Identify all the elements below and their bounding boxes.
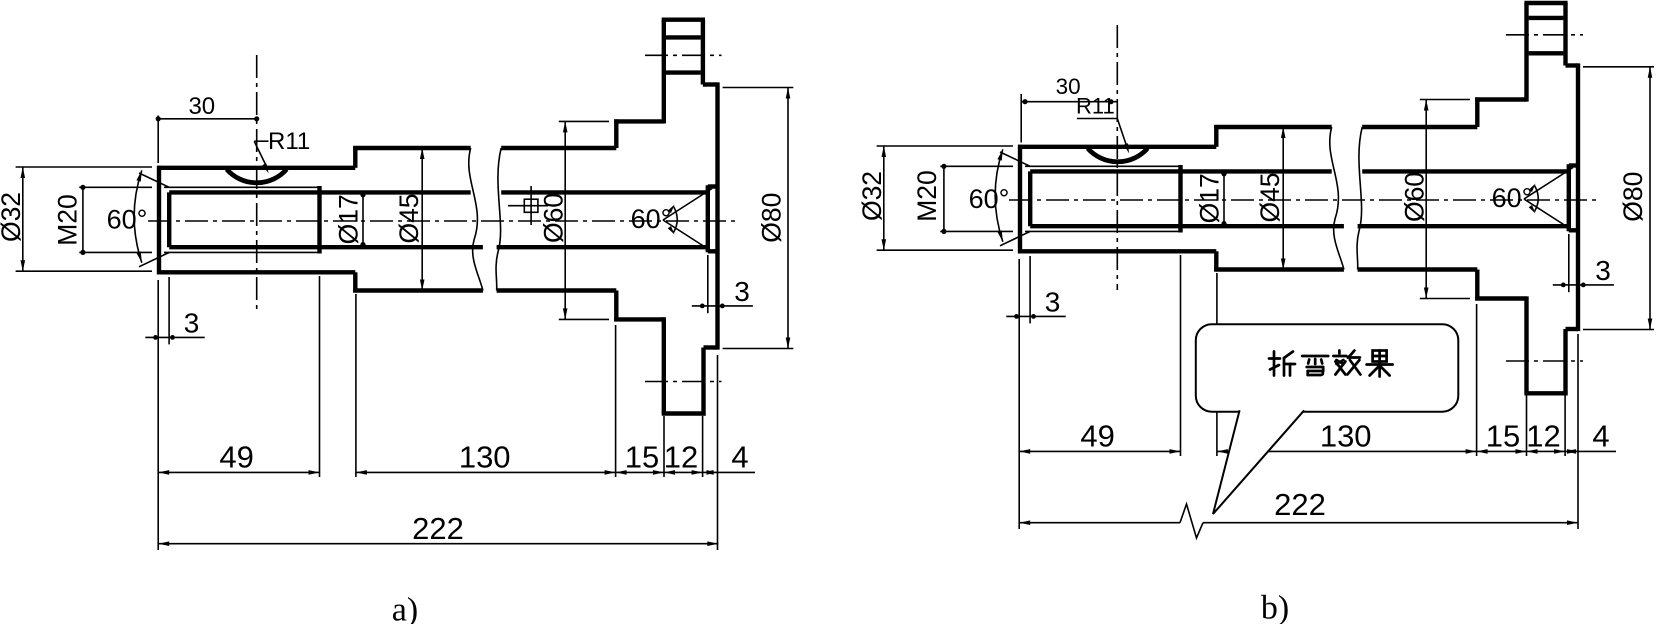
b bore end recess walls xyxy=(1569,163,1578,167)
dimension 49 xyxy=(158,471,319,473)
svg-text:3: 3 xyxy=(1595,255,1611,286)
thread end vertical xyxy=(317,186,321,254)
O60 top edge xyxy=(614,119,664,123)
b dimension O80 xyxy=(1583,66,1654,68)
flange right face xyxy=(715,82,719,349)
main centerline xyxy=(148,220,736,222)
flange bottom jut xyxy=(704,345,718,349)
shaft O32 bottom edge xyxy=(157,270,355,274)
b flange bottom tab xyxy=(1563,329,1567,395)
O60 bottom edge xyxy=(614,317,664,321)
b break line right xyxy=(1357,127,1362,270)
b thread start vertical xyxy=(1028,171,1032,226)
top hole axis xyxy=(645,54,722,56)
extension lines bottom xyxy=(157,280,159,550)
b O60 top edge xyxy=(1475,97,1526,101)
thread start vertical xyxy=(167,192,171,247)
callout text zhe wan xiao guo xyxy=(1273,352,1276,376)
svg-text:15: 15 xyxy=(1486,419,1520,454)
b break line left xyxy=(1330,127,1344,270)
top tab hole walls xyxy=(666,35,701,39)
svg-text:R11: R11 xyxy=(1076,94,1115,119)
b top hole axis xyxy=(1506,34,1583,36)
shaft left end face xyxy=(157,166,161,275)
b flange right face xyxy=(1576,63,1580,331)
b dimension 4 xyxy=(1565,450,1616,452)
dimension 4 xyxy=(703,471,755,473)
b flange bottom jut xyxy=(1566,327,1579,331)
svg-text:4: 4 xyxy=(1592,419,1609,454)
svg-text:15: 15 xyxy=(625,440,659,475)
b shaft left end face xyxy=(1018,145,1022,254)
svg-text:60°: 60° xyxy=(969,184,1010,214)
b thread end vertical xyxy=(1178,165,1182,233)
svg-text:3: 3 xyxy=(734,276,750,307)
svg-text:130: 130 xyxy=(459,440,511,475)
bore end face xyxy=(706,185,710,252)
dimension 15 xyxy=(616,471,664,473)
R11 groove arc xyxy=(227,169,287,182)
b dimension 30 xyxy=(1020,94,1022,143)
dimension 12 xyxy=(664,471,703,473)
dimension M20 xyxy=(79,186,152,188)
svg-text:Ø60: Ø60 xyxy=(539,193,569,243)
step O45 to O60 xyxy=(614,119,618,148)
b shaft O32 top edge xyxy=(1018,145,1216,149)
svg-text:60°: 60° xyxy=(1492,183,1533,213)
b step O45 to O60 xyxy=(1475,97,1479,127)
callout tail xyxy=(1213,410,1304,514)
svg-text:30: 30 xyxy=(188,93,215,120)
square marker xyxy=(524,199,538,212)
svg-text:4: 4 xyxy=(731,440,748,475)
svg-text:3: 3 xyxy=(184,308,200,339)
b dimension 3 left xyxy=(1029,256,1031,323)
svg-text:Ø80: Ø80 xyxy=(1618,172,1648,222)
b shaft O32 bottom edge xyxy=(1018,249,1216,253)
svg-text:222: 222 xyxy=(412,511,464,546)
dimension O45 xyxy=(421,148,423,291)
svg-text:60°: 60° xyxy=(631,204,672,234)
dimension O32 xyxy=(16,166,152,168)
svg-text:R11: R11 xyxy=(268,128,310,155)
dimension O17 xyxy=(362,192,364,247)
b top tab hole walls xyxy=(1529,16,1564,20)
b dimension 15 xyxy=(1477,450,1527,452)
svg-text:130: 130 xyxy=(1320,419,1372,454)
chamfer 60deg left extensions xyxy=(139,173,169,187)
b dimension 49 xyxy=(1019,450,1180,452)
svg-text:3: 3 xyxy=(1045,287,1061,318)
b bore end face xyxy=(1567,164,1571,231)
countersink cone 60deg right xyxy=(663,189,712,221)
dimension 3 right xyxy=(707,255,709,313)
b chamfer 60deg left extensions xyxy=(1000,152,1030,166)
b dimension 60deg chamfer xyxy=(995,149,1003,241)
b flange top tab xyxy=(1524,3,1528,102)
svg-text:12: 12 xyxy=(664,440,698,475)
flange top tab xyxy=(662,20,666,124)
svg-text:Ø60: Ø60 xyxy=(1400,172,1430,222)
svg-text:Ø45: Ø45 xyxy=(1255,172,1285,222)
break line left xyxy=(469,148,483,291)
svg-text:a): a) xyxy=(392,592,418,625)
b dimension 12 xyxy=(1527,450,1566,452)
b O45 top edge xyxy=(1214,125,1332,129)
b dimension 222 with break zigzag xyxy=(1019,522,1180,524)
b extension lines bottom xyxy=(1018,259,1020,529)
flange bottom tab xyxy=(701,348,705,416)
step O32 to O45 xyxy=(353,146,357,168)
b dimension O60 xyxy=(1420,99,1470,101)
thread M20 major lines (thin) xyxy=(164,186,320,188)
svg-text:60°: 60° xyxy=(107,205,148,235)
dimension O60 xyxy=(559,120,609,122)
bottom hole axis xyxy=(645,381,722,383)
b bore O17 bottom wall xyxy=(1030,224,1344,228)
b O45 bottom edge xyxy=(1214,267,1344,271)
b dimension M20 xyxy=(940,165,1013,167)
dimension 222 xyxy=(158,543,718,545)
dimension 130 xyxy=(356,471,616,473)
svg-text:49: 49 xyxy=(1080,419,1114,454)
bore O17 top wall xyxy=(169,190,471,194)
R11 groove axis xyxy=(256,55,258,311)
O45 bottom edge xyxy=(353,288,483,292)
b countersink cone 60deg xyxy=(1524,168,1573,200)
b O60 bottom edge xyxy=(1475,296,1526,300)
b thread M20 major lines xyxy=(1025,165,1181,167)
shaft O32 top edge xyxy=(157,166,355,170)
b main centerline xyxy=(1009,199,1597,201)
bore O17 bottom wall xyxy=(169,245,483,249)
dimension 30 xyxy=(157,116,159,164)
svg-text:M20: M20 xyxy=(53,194,83,246)
svg-text:Ø17: Ø17 xyxy=(334,194,364,244)
svg-text:49: 49 xyxy=(219,440,253,475)
b dimension 130 xyxy=(1217,450,1477,452)
dimension 60deg chamfer left xyxy=(134,170,142,262)
svg-text:b): b) xyxy=(1261,590,1289,625)
b dimension O17 xyxy=(1223,171,1225,226)
svg-text:Ø32: Ø32 xyxy=(857,171,887,221)
b dimension O45 xyxy=(1282,127,1284,270)
R11 leader and label xyxy=(254,140,268,142)
b dimension O32 xyxy=(877,145,1013,147)
b step O32 to O45 xyxy=(1214,125,1218,147)
b dimension 3 right xyxy=(1568,234,1570,292)
svg-text:Ø45: Ø45 xyxy=(394,193,424,243)
dimension 3 left xyxy=(168,277,170,344)
b R11 groove axis xyxy=(1116,25,1118,290)
dimension O80 xyxy=(723,87,794,89)
svg-text:Ø80: Ø80 xyxy=(757,193,787,243)
b bore O17 top wall xyxy=(1030,169,1332,173)
b bottom hole axis xyxy=(1506,360,1583,362)
bore end recess walls xyxy=(708,184,717,188)
svg-text:222: 222 xyxy=(1274,487,1326,522)
b R11 groove arc xyxy=(1088,148,1148,161)
svg-text:Ø17: Ø17 xyxy=(1195,173,1225,223)
svg-text:M20: M20 xyxy=(912,170,942,222)
svg-text:12: 12 xyxy=(1526,419,1560,454)
svg-text:Ø32: Ø32 xyxy=(0,192,26,242)
break line right xyxy=(496,148,501,291)
O45 top edge xyxy=(353,146,471,150)
callout bubble xyxy=(1196,324,1459,412)
